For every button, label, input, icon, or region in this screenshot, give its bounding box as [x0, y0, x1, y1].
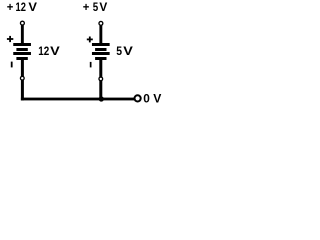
ground rail wire (0 V), horizontal — [21, 98, 134, 101]
svg-text:V: V — [50, 44, 60, 58]
battery B1, short plate 2 — [16, 48, 27, 51]
svg-text:0: 0 — [143, 92, 150, 106]
wire from +12V terminal to battery B1 positive plate — [21, 25, 24, 43]
svg-text:12: 12 — [16, 0, 27, 14]
svg-text:V: V — [99, 0, 107, 14]
battery B2 minus tick — [90, 62, 92, 68]
battery B2, short plate 2 — [95, 48, 106, 51]
battery B2 (5 V), long plate 1 — [92, 43, 110, 46]
label +12V (net name, top-left) — [7, 0, 37, 14]
battery B1 plus sign — [7, 36, 13, 42]
node 0V terminal (open circle) — [134, 94, 142, 102]
label 5 V (battery B2 value) — [116, 44, 133, 58]
battery B2, long plate 3 — [92, 52, 110, 55]
battery B2 plus sign — [87, 37, 93, 43]
battery B1 (12 V), long plate 1 — [13, 43, 31, 46]
svg-text:+: + — [7, 0, 14, 14]
svg-text:V: V — [28, 0, 37, 14]
label 0 V (net name, bottom-right) — [143, 92, 161, 106]
battery B2, short plate 4 — [95, 57, 106, 60]
label +5V (net name, top-right) — [83, 0, 108, 14]
node +5V terminal (open circle) — [98, 21, 103, 26]
svg-text:+: + — [83, 0, 90, 14]
node +12V terminal (open circle) — [20, 21, 25, 26]
wire from battery B2 negative plate down to ground rail — [99, 60, 102, 101]
battery B1, long plate 3 — [13, 52, 31, 55]
battery B1, short plate 4 — [16, 57, 27, 60]
wire from +5V terminal to battery B2 positive plate — [99, 26, 102, 44]
svg-text:12: 12 — [38, 44, 49, 58]
svg-text:V: V — [153, 92, 161, 106]
connection point on B2 lower wire (open circle) — [98, 76, 103, 81]
battery B1 minus tick — [11, 62, 13, 68]
junction dot where B2 wire meets ground rail — [99, 96, 104, 101]
wire from battery B1 negative plate down to ground rail — [21, 60, 24, 101]
label 12 V (battery B1 value) — [38, 44, 60, 58]
svg-text:V: V — [123, 44, 133, 58]
svg-text:5: 5 — [93, 0, 99, 14]
svg-text:5: 5 — [116, 44, 122, 58]
connection point on B1 lower wire (open circle) — [20, 76, 25, 81]
